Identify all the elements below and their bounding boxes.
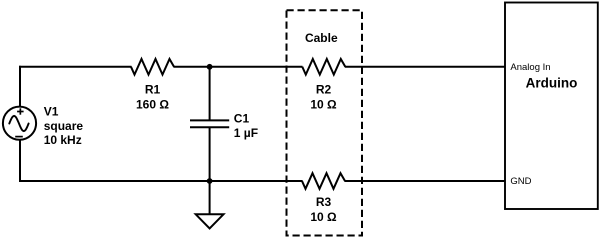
svg-text:GND: GND [510, 176, 531, 187]
ground [196, 214, 224, 228]
wire left rail lower: source to bottom rail [19, 140, 21, 183]
wire bottom rail: R3 to Arduino [345, 180, 506, 182]
svg-text:Arduino: Arduino [526, 76, 578, 91]
svg-text:V1: V1 [44, 105, 59, 119]
wire top rail: source to R1 [19, 66, 132, 68]
wire bottom rail: source to R3 [19, 180, 303, 182]
resistor R3 [302, 173, 345, 189]
Arduino name label [526, 76, 578, 91]
R2 name label [316, 82, 332, 96]
resistor R1 [131, 59, 174, 75]
V1 name label [44, 105, 59, 119]
svg-text:10 Ω: 10 Ω [310, 98, 337, 112]
svg-text:10 Ω: 10 Ω [310, 210, 337, 224]
R3 value label [310, 210, 337, 224]
resistor R2 [302, 59, 345, 75]
svg-text:R2: R2 [316, 82, 332, 96]
node A junction dot (top) [207, 64, 213, 70]
svg-text:square: square [44, 119, 84, 133]
Arduino box U1 [505, 3, 598, 210]
wire top rail: R1 to R2 [174, 66, 303, 68]
svg-text:R3: R3 [316, 195, 332, 209]
C1 value label [234, 126, 258, 140]
R1 name label [145, 82, 161, 96]
wire left rail upper: top rail to source [19, 66, 21, 107]
cable box (dashed) [287, 10, 363, 235]
node B junction dot (bottom) [207, 178, 213, 184]
Cable label [305, 31, 338, 45]
R2 value label [310, 98, 337, 112]
wire capacitor branch lower [209, 127, 211, 182]
wire top rail: R2 to Arduino [345, 66, 506, 68]
wire ground stub [209, 181, 211, 214]
pin label GND [510, 176, 531, 187]
R3 name label [316, 195, 332, 209]
wire capacitor branch upper [209, 67, 211, 120]
V1 type label [44, 119, 84, 133]
R1 value label [136, 98, 169, 112]
svg-text:R1: R1 [145, 82, 161, 96]
C1 name label [234, 111, 250, 125]
svg-text:160 Ω: 160 Ω [136, 98, 169, 112]
voltage source V1 [3, 107, 36, 140]
svg-text:Cable: Cable [305, 31, 338, 45]
pin label Analog In [510, 62, 550, 73]
svg-text:10 kHz: 10 kHz [44, 133, 82, 147]
svg-text:C1: C1 [234, 111, 250, 125]
capacitor C1 [190, 120, 229, 127]
V1 frequency label [44, 133, 82, 147]
svg-text:Analog In: Analog In [510, 62, 550, 73]
svg-text:1 µF: 1 µF [234, 126, 258, 140]
